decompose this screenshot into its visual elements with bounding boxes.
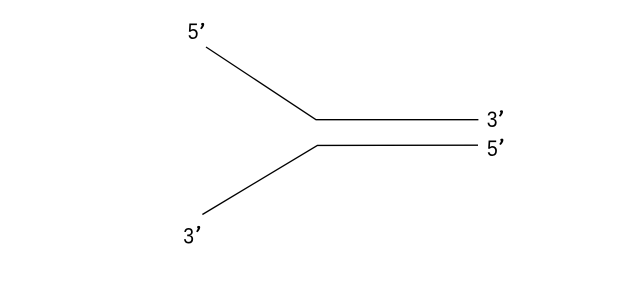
svg-text:3: 3 [183,224,194,248]
svg-text:5: 5 [188,20,199,44]
svg-text:3: 3 [487,108,498,132]
svg-text:5: 5 [487,137,498,161]
